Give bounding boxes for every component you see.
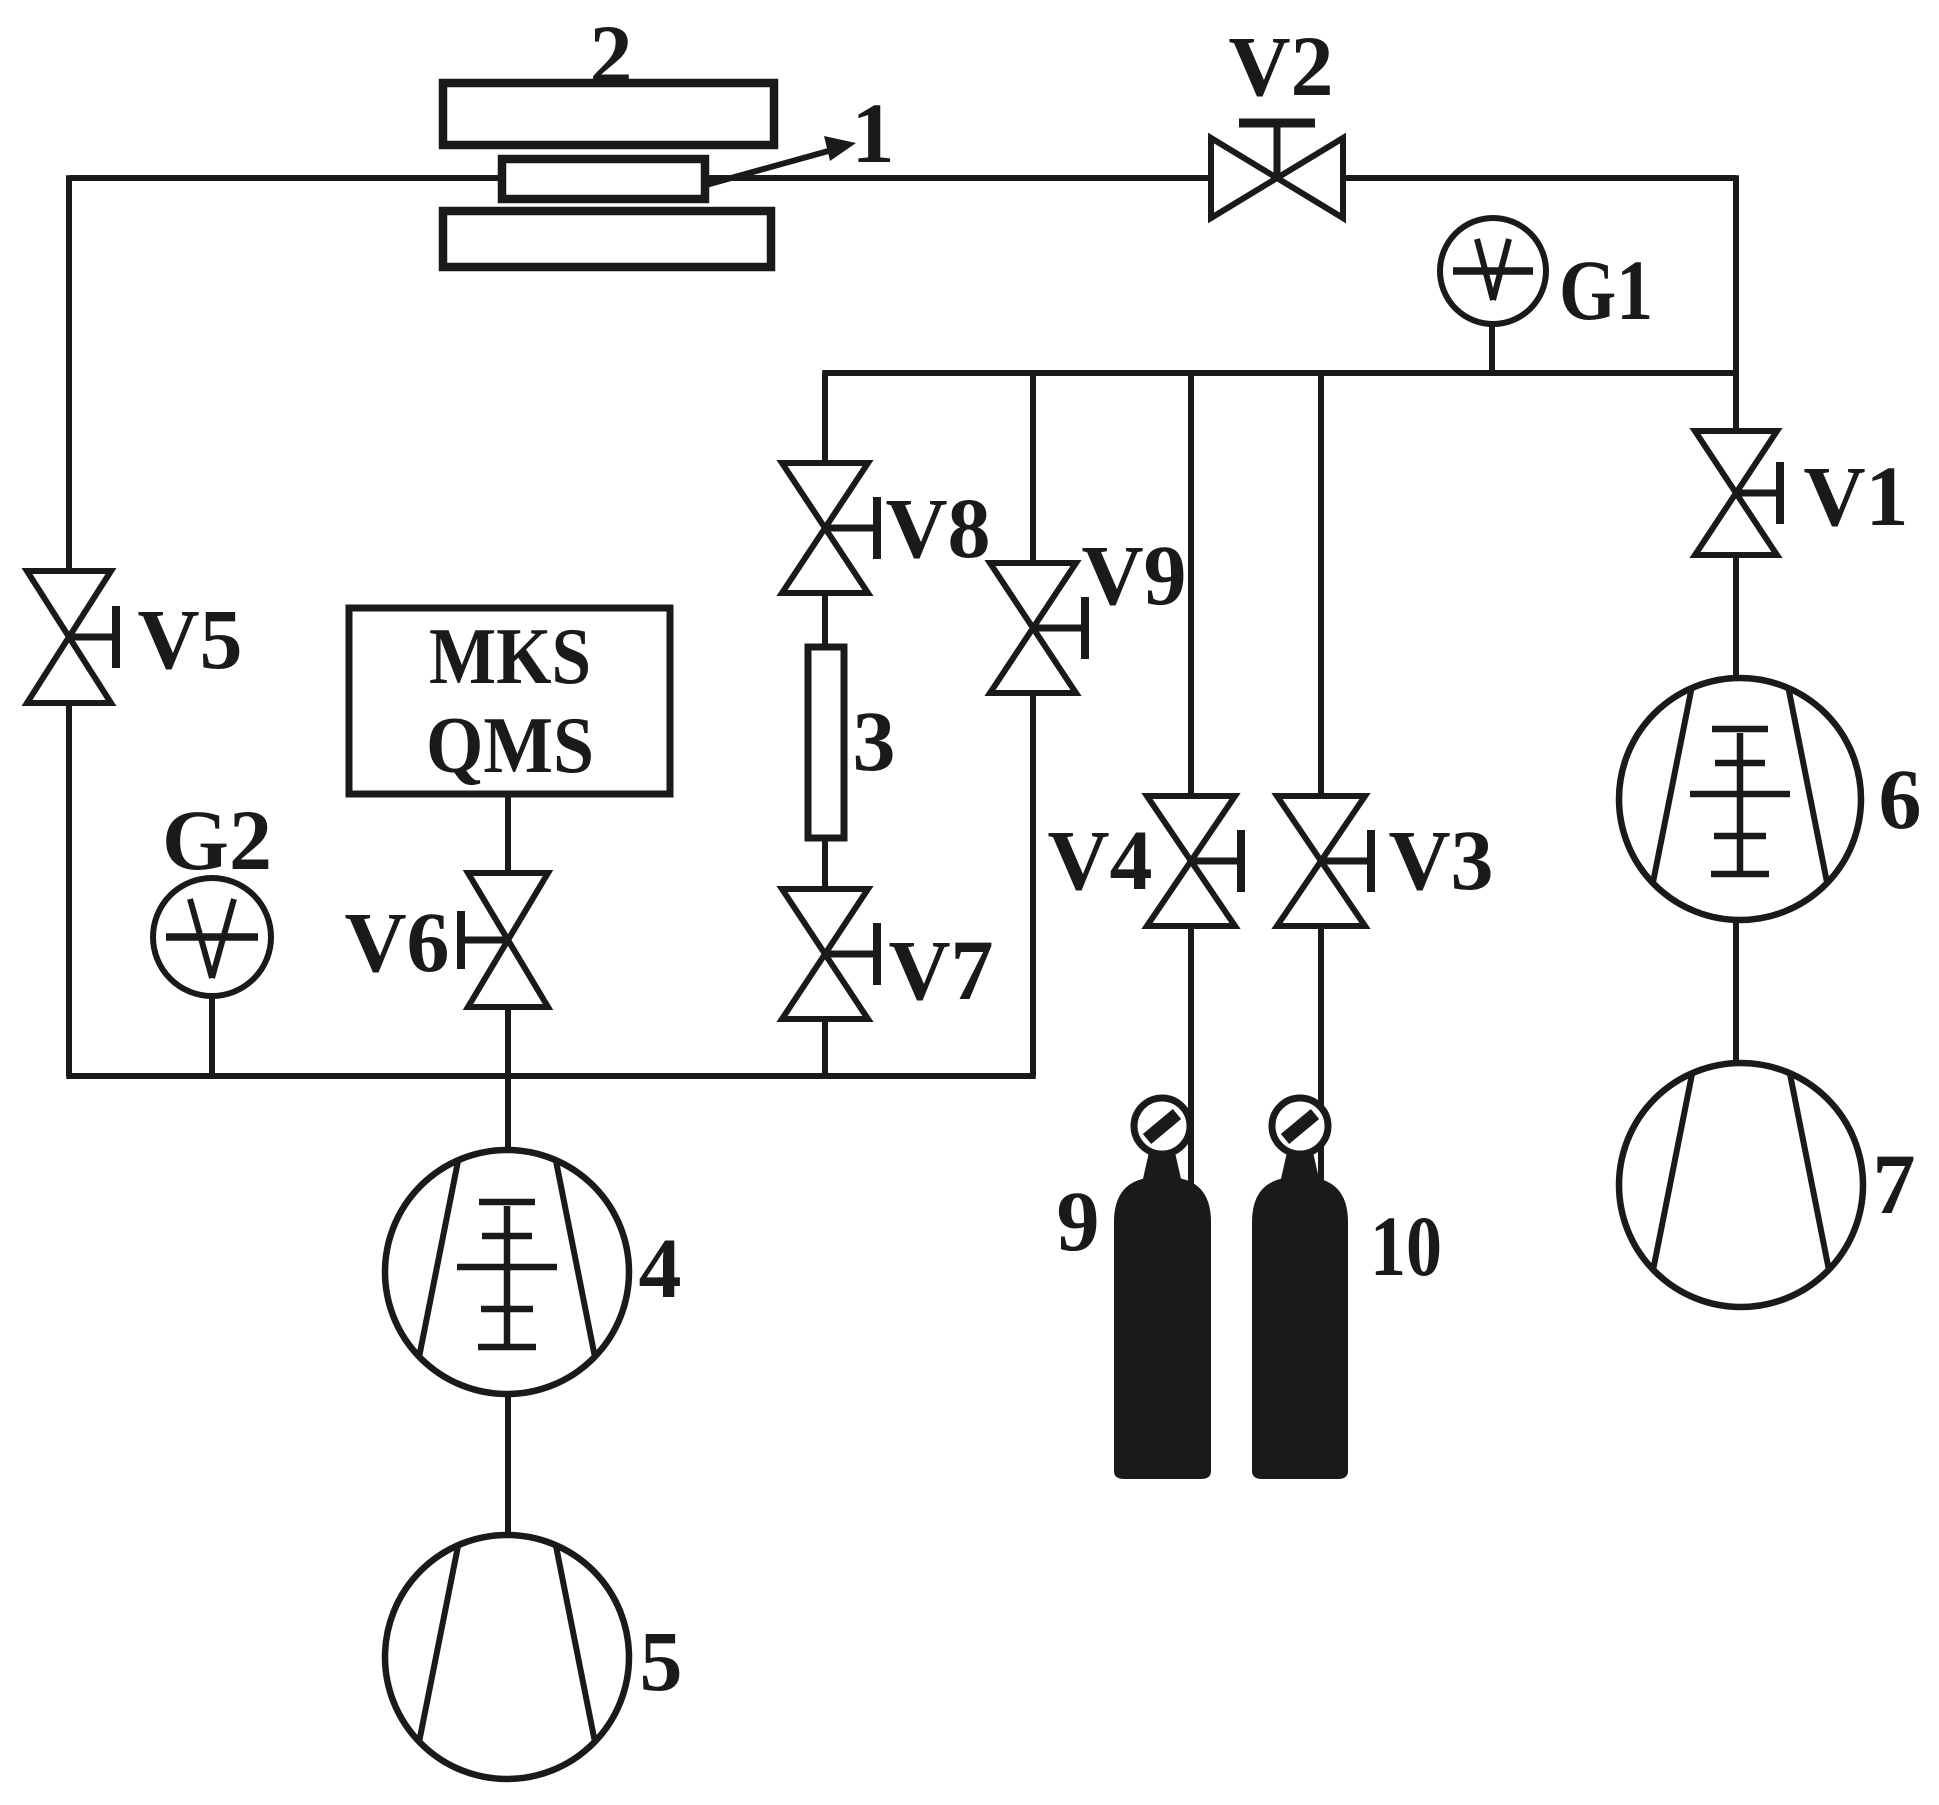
gas cylinder 10: [1252, 1177, 1348, 1479]
svg-text:9: 9: [1057, 1173, 1100, 1269]
svg-text:V8: V8: [885, 480, 990, 576]
wire: lower manifold (bus2): [66, 1073, 1036, 1079]
svg-text:V7: V7: [888, 922, 993, 1018]
MKS QMS box: [349, 608, 670, 794]
svg-text:V6: V6: [344, 894, 449, 990]
svg-text:7: 7: [1873, 1136, 1916, 1232]
wire: V9 branch: [1030, 373, 1036, 1076]
svg-text:V2: V2: [1228, 18, 1333, 114]
svg-text:10: 10: [1370, 1198, 1442, 1294]
svg-text:V9: V9: [1081, 527, 1186, 623]
rotary pump 5: [385, 1535, 629, 1779]
wire: V4 branch to cylinder 9: [1188, 373, 1194, 1185]
furnace bottom plate (part of 2): [443, 211, 771, 267]
wire: G1 stem: [1489, 320, 1495, 373]
turbo pump 6: [1619, 678, 1861, 920]
valve V6 (handle left): [468, 873, 548, 940]
svg-text:4: 4: [639, 1220, 682, 1316]
wire: QMS-V6-pump4 line: [505, 794, 511, 1152]
valve V1: [1695, 431, 1777, 493]
gauge G2: [153, 878, 271, 996]
svg-text:QMS: QMS: [426, 702, 594, 790]
svg-text:V5: V5: [137, 591, 242, 687]
svg-text:V4: V4: [1047, 812, 1152, 908]
rotary pump 7: [1619, 1063, 1863, 1307]
wire: upper manifold (bus1): [822, 370, 1739, 376]
valve V5: [27, 571, 111, 637]
wire: V3 branch to cylinder 10: [1318, 373, 1324, 1185]
wire: left riser (chamber to V5 to lower manifold): [66, 175, 72, 1076]
valve V2 (top, horizontal with T-handle): [1274, 123, 1281, 178]
wire: top manifold from left riser to V2: [69, 175, 1211, 181]
valve V4: [1147, 796, 1235, 861]
valve V7: [782, 889, 868, 954]
svg-text:G1: G1: [1559, 242, 1653, 338]
svg-text:1: 1: [852, 85, 895, 181]
valve V8: [782, 463, 868, 528]
wire: V8-3-V7 branch: [822, 373, 828, 1076]
svg-text:3: 3: [853, 693, 896, 789]
turbo pump 4: [385, 1150, 629, 1394]
gauge G1: [1440, 218, 1546, 324]
svg-text:G2: G2: [162, 792, 272, 888]
valve V9: [990, 563, 1076, 628]
wire: G2 stem: [209, 995, 215, 1076]
svg-text:MKS: MKS: [429, 613, 591, 701]
svg-text:6: 6: [1879, 751, 1922, 847]
svg-text:V3: V3: [1388, 812, 1493, 908]
wire: pump4 to pump5 line: [505, 1393, 511, 1537]
furnace top plate (part of 2): [443, 83, 774, 145]
wire: right riser (top manifold through V1, pump 6, pump 7): [1733, 175, 1739, 1065]
wire: top manifold from V2 to right riser: [1343, 175, 1736, 181]
gas cylinder 9: [1114, 1177, 1211, 1479]
arrow pointing to sample 1: [706, 150, 832, 185]
sample plate 1 (middle): [502, 159, 705, 199]
component 3 (tube): [808, 647, 844, 838]
svg-text:5: 5: [640, 1613, 683, 1709]
svg-text:2: 2: [590, 7, 633, 103]
valve V3: [1277, 796, 1365, 861]
svg-text:V1: V1: [1803, 448, 1908, 544]
